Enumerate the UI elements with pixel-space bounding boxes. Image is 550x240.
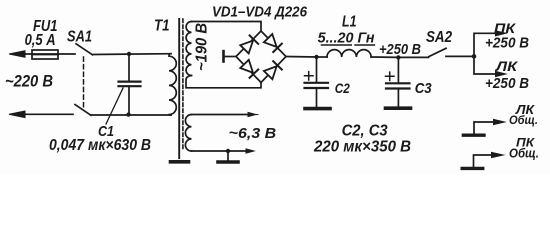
svg-text:VD1–VD4 Д226: VD1–VD4 Д226 bbox=[212, 3, 308, 20]
svg-text:220 мк×350 В: 220 мк×350 В bbox=[313, 139, 411, 156]
svg-text:С2, С3: С2, С3 bbox=[342, 123, 388, 140]
svg-text:Общ.: Общ. bbox=[509, 147, 539, 161]
svg-text:0,047 мк×630 В: 0,047 мк×630 В bbox=[49, 137, 151, 154]
svg-text:SA1: SA1 bbox=[67, 29, 92, 46]
svg-text:~190 В: ~190 В bbox=[194, 23, 211, 71]
svg-text:Т1: Т1 bbox=[154, 18, 170, 35]
svg-text:SA2: SA2 bbox=[426, 29, 452, 46]
svg-text:+250 В: +250 В bbox=[485, 36, 529, 52]
svg-text:Общ.: Общ. bbox=[509, 113, 538, 127]
svg-text:ПК: ПК bbox=[494, 20, 517, 36]
svg-text:С2: С2 bbox=[335, 80, 350, 96]
svg-text:0,5 А: 0,5 А bbox=[25, 32, 56, 49]
svg-text:ЛК: ЛК bbox=[495, 58, 519, 74]
svg-text:L1: L1 bbox=[342, 14, 357, 31]
svg-text:~220 В: ~220 В bbox=[5, 73, 53, 91]
svg-text:5...20 Гн: 5...20 Гн bbox=[318, 30, 375, 47]
svg-text:С3: С3 bbox=[415, 80, 433, 97]
svg-text:+250 В: +250 В bbox=[379, 41, 421, 58]
svg-text:+250 В: +250 В bbox=[485, 76, 529, 92]
svg-text:~6,3 В: ~6,3 В bbox=[229, 125, 277, 142]
